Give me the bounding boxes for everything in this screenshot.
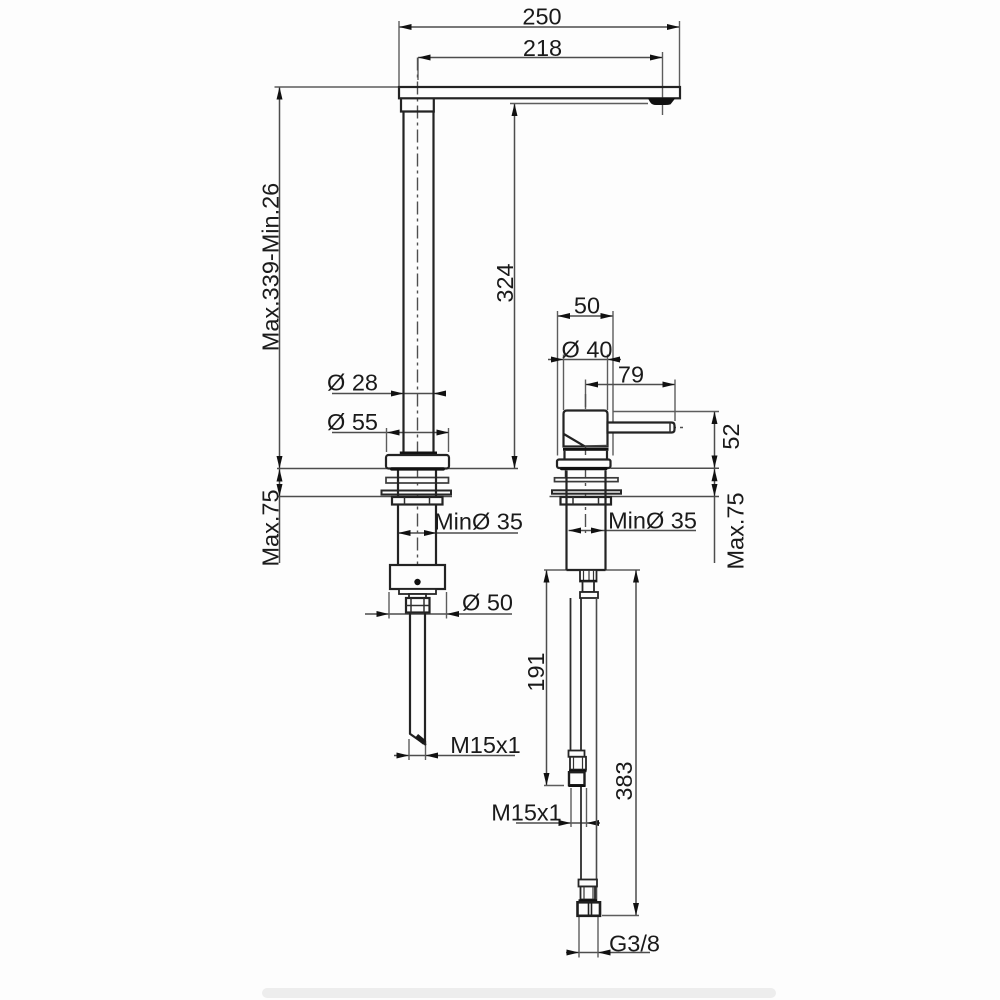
svg-text:250: 250 (522, 4, 561, 30)
svg-text:Ø 50: Ø 50 (462, 590, 513, 616)
svg-text:50: 50 (574, 293, 600, 319)
svg-text:M15x1: M15x1 (491, 800, 562, 826)
svg-text:MinØ 35: MinØ 35 (434, 509, 523, 535)
svg-text:Ø 28: Ø 28 (327, 370, 378, 396)
svg-text:Max.75: Max.75 (258, 489, 284, 566)
svg-text:Ø 40: Ø 40 (562, 337, 613, 363)
svg-text:MinØ 35: MinØ 35 (608, 508, 697, 534)
svg-text:Ø 55: Ø 55 (327, 409, 378, 435)
svg-text:M15x1: M15x1 (450, 732, 521, 758)
svg-text:Max.75: Max.75 (723, 492, 749, 569)
svg-text:Max.339-Min.26: Max.339-Min.26 (258, 183, 284, 352)
svg-text:79: 79 (618, 362, 644, 388)
svg-text:191: 191 (523, 652, 549, 691)
svg-text:383: 383 (611, 761, 637, 800)
svg-text:52: 52 (718, 423, 744, 449)
svg-text:218: 218 (523, 35, 562, 61)
svg-text:G3/8: G3/8 (609, 931, 660, 957)
svg-text:324: 324 (492, 263, 518, 302)
